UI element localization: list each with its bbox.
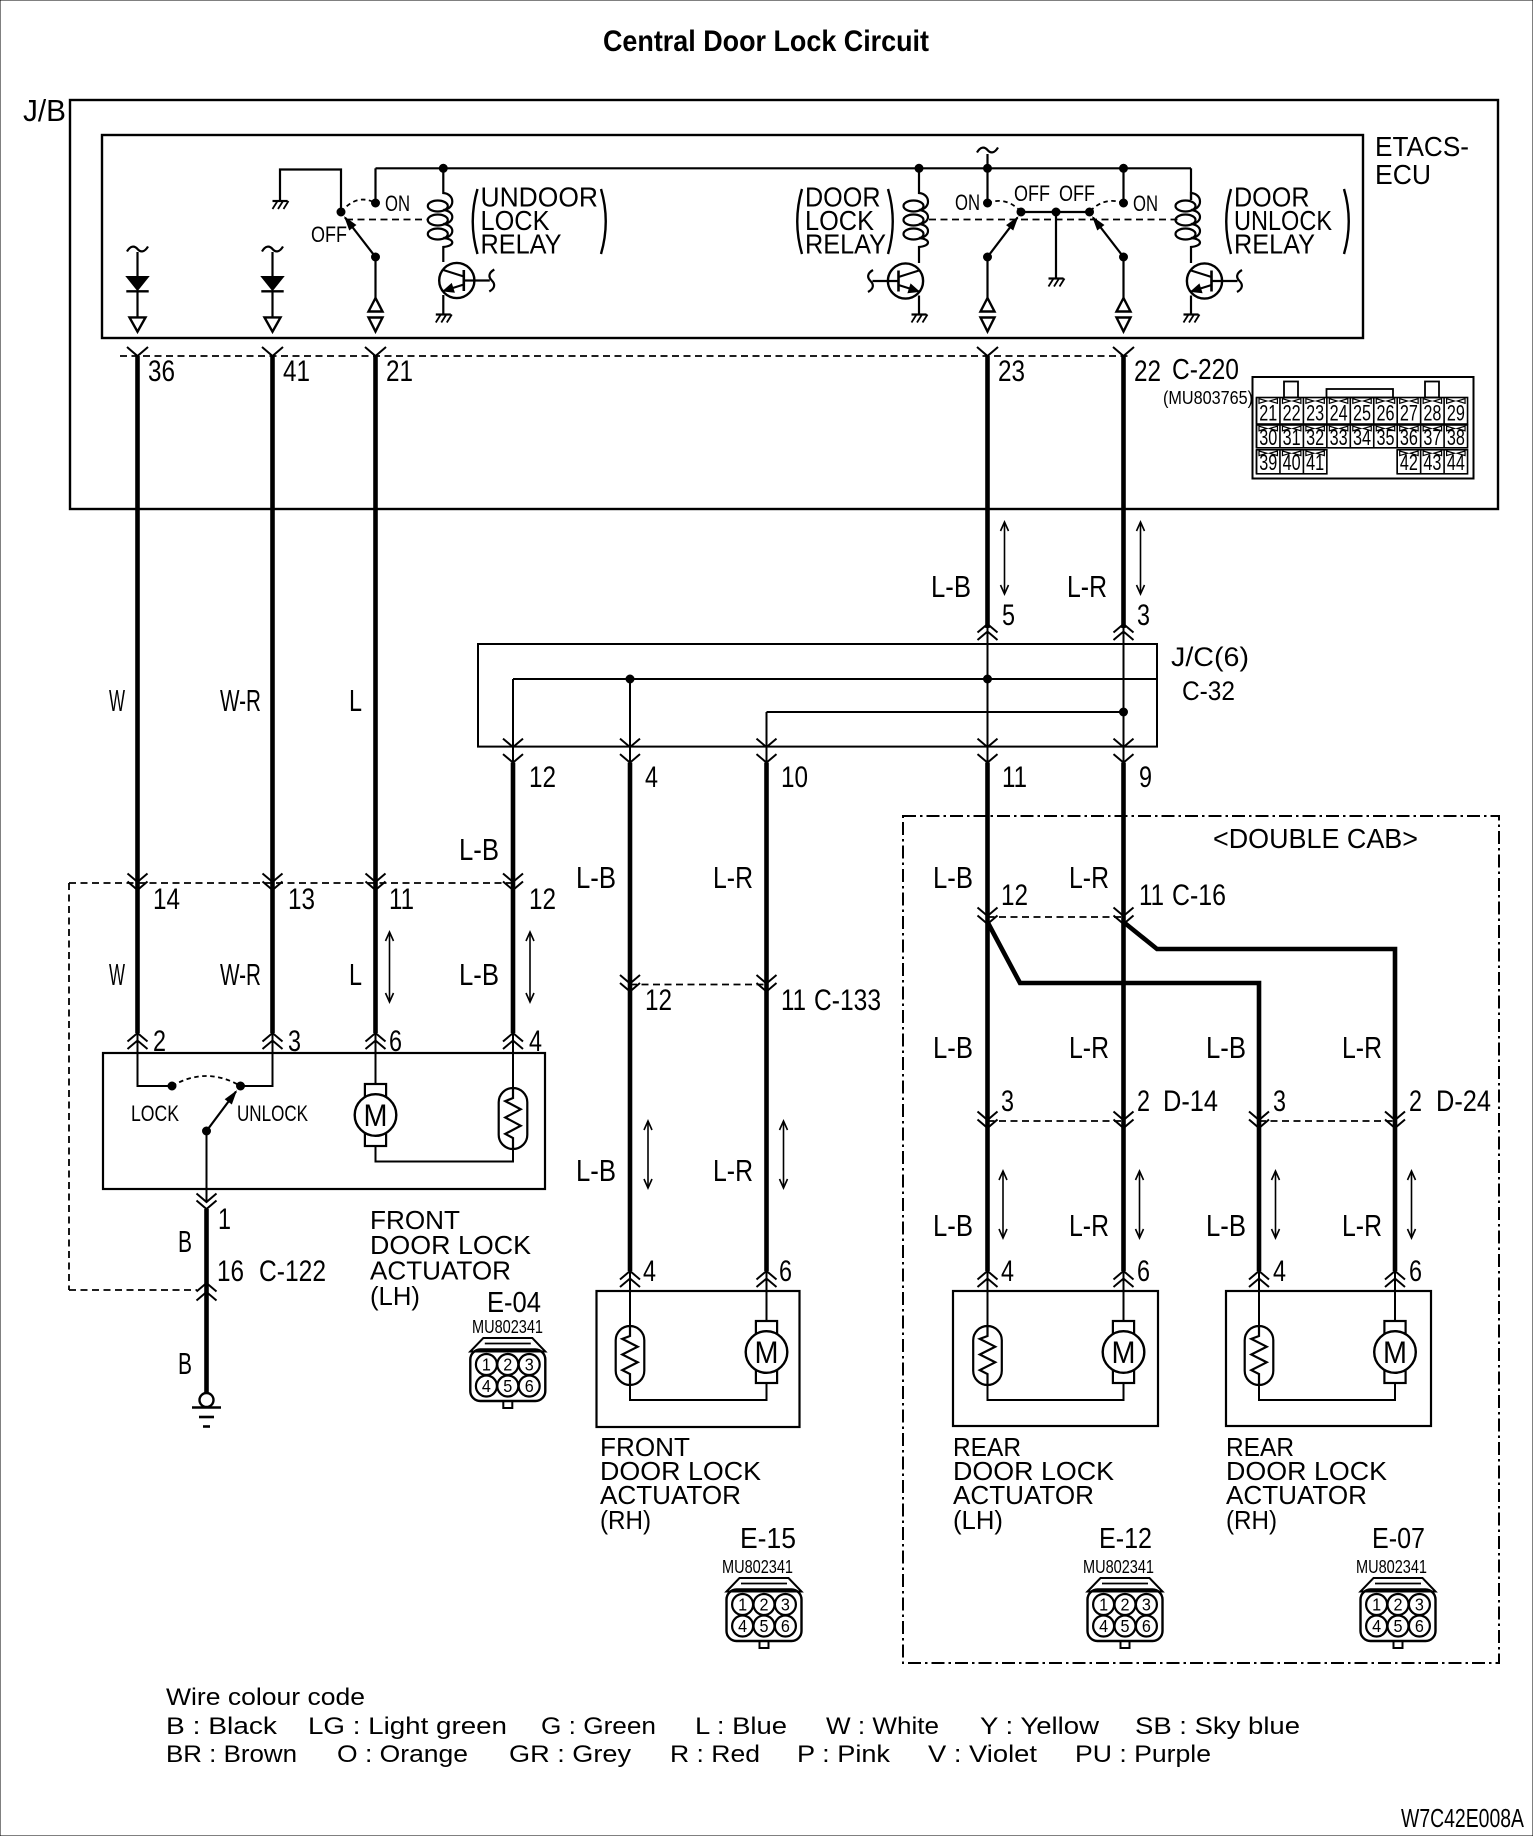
connector icon E-12	[1088, 1578, 1163, 1648]
svg-text:2: 2	[1121, 1595, 1130, 1615]
svg-text:L-R: L-R	[1069, 1208, 1109, 1243]
svg-text:M: M	[1112, 1334, 1136, 1370]
connector icon E-15	[727, 1578, 802, 1648]
svg-text:G : Green: G : Green	[541, 1713, 656, 1740]
label L-B at C-16	[933, 860, 973, 895]
svg-text:39: 39	[1259, 450, 1277, 475]
svg-text:L-B: L-B	[576, 860, 616, 895]
svg-text:Wire colour code: Wire colour code	[166, 1684, 365, 1711]
label FRONT DOOR LOCK ACTUATOR (RH)	[600, 1432, 762, 1535]
svg-text:C-133: C-133	[814, 984, 881, 1017]
label MU802341 (E-12)	[1083, 1556, 1154, 1577]
svg-text:27: 27	[1400, 401, 1418, 426]
link resistor-motor front RH	[630, 1383, 767, 1400]
svg-text:M: M	[755, 1334, 779, 1370]
transistor Q3 (door unlock relay driver)	[1187, 263, 1242, 314]
svg-text:2: 2	[1409, 1085, 1422, 1118]
svg-text:LG : Light green: LG : Light green	[308, 1713, 507, 1740]
label L-B (to front RH)	[576, 860, 616, 895]
connector D-24 dashed line	[1259, 1120, 1395, 1122]
svg-text:12: 12	[529, 761, 556, 794]
svg-text:30: 30	[1259, 425, 1277, 450]
svg-text:E-04: E-04	[487, 1287, 541, 1319]
svg-text:L-B: L-B	[931, 569, 971, 604]
label B (lower)	[178, 1346, 192, 1381]
svg-text:11: 11	[781, 984, 806, 1017]
key switch arm	[203, 1092, 237, 1190]
connector icon E-04	[470, 1338, 545, 1408]
svg-text:2: 2	[503, 1355, 512, 1375]
svg-text:9: 9	[1139, 761, 1152, 794]
label REAR DOOR LOCK ACTUATOR (LH)	[953, 1432, 1115, 1535]
joint connector J/C(6) C-32 box	[478, 642, 1249, 747]
label MU802341 (E-07)	[1356, 1556, 1427, 1577]
svg-text:L-B: L-B	[459, 957, 499, 992]
label E-15	[740, 1523, 796, 1555]
svg-text:L-B: L-B	[459, 832, 499, 867]
svg-text:4: 4	[645, 761, 658, 794]
svg-text:1: 1	[482, 1355, 491, 1375]
wire L-B (J/C pin11 into double cab)	[985, 763, 990, 1271]
svg-text:6: 6	[779, 1255, 792, 1288]
svg-text:3: 3	[1001, 1085, 1014, 1118]
svg-text:21: 21	[1259, 401, 1277, 426]
wire ground to switch SW1 pivot	[280, 170, 341, 213]
svg-text:3: 3	[525, 1355, 534, 1375]
wire colour code legend	[166, 1684, 1300, 1768]
svg-text:(LH): (LH)	[953, 1505, 1003, 1535]
supply rail inside ETACS	[376, 167, 1192, 169]
actuator RH entry pin 6	[757, 1255, 793, 1291]
label UNLOCK	[237, 1101, 308, 1126]
resistor rear LH	[973, 1291, 1002, 1385]
C-133 pin 12	[620, 975, 672, 1017]
svg-text:12: 12	[645, 984, 672, 1017]
label MU802341 (E-04)	[472, 1316, 543, 1337]
svg-text:PU : Purple: PU : Purple	[1075, 1741, 1211, 1768]
pin 22 of C-220	[1113, 347, 1161, 388]
svg-text:3: 3	[1137, 599, 1150, 632]
svg-text:OFF: OFF	[1014, 181, 1050, 206]
svg-text:23: 23	[998, 355, 1025, 388]
svg-text:C-220: C-220	[1172, 354, 1239, 386]
svg-text:6: 6	[1409, 1255, 1422, 1288]
label E-12	[1099, 1523, 1152, 1555]
svg-text:1: 1	[1099, 1595, 1108, 1615]
J/C bus2 junction dot	[1120, 708, 1128, 716]
relay coil L1 (undoor lock relay)	[428, 168, 453, 262]
J/C entry pin 5	[978, 624, 998, 644]
svg-text:26: 26	[1376, 401, 1394, 426]
pin 21 of C-220	[365, 347, 413, 388]
relay coil L2 (door lock relay)	[904, 168, 929, 263]
ground Q1 emitter	[436, 315, 452, 323]
svg-text:2: 2	[1394, 1595, 1403, 1615]
svg-text:RELAY: RELAY	[1234, 229, 1315, 260]
label (DOOR LOCK RELAY)	[797, 182, 893, 260]
link resistor-motor rear RH	[1259, 1383, 1395, 1400]
label MU802341 (E-15)	[722, 1556, 793, 1577]
svg-text:E-15: E-15	[740, 1523, 796, 1555]
svg-text:2: 2	[153, 1025, 166, 1058]
label L-R / arrow / pin 3 at J/C	[1067, 522, 1150, 632]
svg-text:W-R: W-R	[220, 957, 261, 992]
wire L (pin21 to pin6)	[373, 356, 378, 1033]
J/C exit pin 11	[978, 739, 1028, 794]
svg-text:L-R: L-R	[1069, 1030, 1109, 1065]
svg-text:4: 4	[738, 1616, 747, 1636]
svg-text:C-122: C-122	[259, 1255, 326, 1288]
dashed actuation link SW1-L1	[346, 219, 428, 221]
svg-text:28: 28	[1423, 401, 1441, 426]
rear RH entry pin 4	[1249, 1255, 1286, 1291]
label W-R (lower)	[220, 957, 261, 992]
label LOCK	[131, 1101, 179, 1126]
link resistor-motor rear LH	[988, 1383, 1124, 1400]
svg-text:(LH): (LH)	[370, 1281, 420, 1311]
junction dot rail/sw2	[984, 164, 992, 172]
wire L-R (J/C pin10 to front RH pin6)	[764, 763, 769, 1271]
wire W-R (pin41 to pin3)	[270, 356, 275, 1033]
label L	[349, 683, 362, 718]
svg-text:L : Blue: L : Blue	[695, 1713, 787, 1740]
svg-text:W7C42E008A: W7C42E008A	[1401, 1803, 1524, 1833]
label C-220	[1172, 354, 1239, 386]
svg-text:33: 33	[1330, 425, 1348, 450]
wire L-B (pin23 to J/C)	[985, 356, 990, 628]
svg-text:11: 11	[1139, 879, 1164, 912]
label B	[178, 1224, 192, 1259]
switch SW3 (door unlock relay contact)	[1086, 168, 1128, 298]
transistor Q2 (door lock relay driver, mirrored)	[868, 263, 923, 314]
dashed actuation link L2-SW2-SW3-L3	[929, 219, 1180, 221]
J/C entry pin 3	[1114, 624, 1134, 644]
label E-07	[1372, 1523, 1425, 1555]
svg-text:B : Black: B : Black	[166, 1713, 278, 1740]
resistor (lock position sw) front LH	[499, 1053, 528, 1149]
label OFF OFF (SW2/SW3)	[1014, 181, 1095, 206]
svg-text:J/C(6): J/C(6)	[1171, 642, 1249, 672]
resistor rear RH	[1245, 1291, 1274, 1385]
connector C-220 dashed pin row	[120, 355, 1130, 357]
label W	[109, 683, 125, 718]
label L-R (to front RH)	[713, 860, 753, 895]
wire L-R branch to rear RH (jog)	[1124, 922, 1396, 1271]
transistor Q1 (undoor lock relay driver)	[439, 263, 494, 314]
wire L-B (J/C pin4 to front RH pin4)	[628, 763, 633, 1271]
svg-text:3: 3	[1273, 1085, 1286, 1118]
label L-B lower / arrow (front RH)	[576, 1121, 652, 1188]
svg-text:(RH): (RH)	[1226, 1505, 1277, 1535]
connector C-16 dashed line	[988, 916, 1124, 918]
svg-text:L-B: L-B	[933, 1208, 973, 1243]
svg-text:O : Orange: O : Orange	[337, 1741, 468, 1768]
svg-text:E-07: E-07	[1372, 1523, 1425, 1555]
ground Q2 emitter	[912, 315, 928, 323]
svg-text:43: 43	[1423, 450, 1441, 475]
drawing number W7C42E008A	[1401, 1803, 1524, 1833]
svg-text:6: 6	[389, 1025, 402, 1058]
wire B (pin1 to ground)	[204, 1209, 209, 1393]
SW3 output connector triangles	[1117, 298, 1131, 332]
label (DOOR UNLOCK RELAY)	[1226, 182, 1349, 260]
svg-text:34: 34	[1353, 425, 1371, 450]
svg-text:L-B: L-B	[933, 860, 973, 895]
svg-text:3: 3	[288, 1025, 301, 1058]
svg-text:(MU803765): (MU803765)	[1163, 387, 1253, 408]
svg-text:12: 12	[1001, 879, 1028, 912]
label L-B (lower)	[459, 932, 534, 1002]
actuator LH entry pin 6	[366, 1025, 403, 1058]
labels L-B/L-R/L-B/L-R mid double cab	[933, 1030, 1382, 1065]
ground Q3 emitter	[1184, 315, 1200, 323]
label E-04	[487, 1287, 541, 1319]
svg-text:ECU: ECU	[1375, 159, 1431, 190]
svg-text:V : Violet: V : Violet	[928, 1741, 1037, 1768]
C-122 pin 16 crossing	[197, 1255, 327, 1301]
svg-text:41: 41	[283, 355, 310, 388]
svg-text:3: 3	[781, 1595, 790, 1615]
diode D1 (pin 36 branch)	[126, 247, 148, 332]
D-14 pin 3	[978, 1085, 1015, 1128]
svg-text:MU802341: MU802341	[722, 1556, 793, 1577]
svg-text:L-R: L-R	[1342, 1208, 1382, 1243]
wire W (pin36 to front LH actuator pin2)	[135, 356, 140, 1033]
C-122 pin 11	[366, 874, 415, 917]
svg-text:31: 31	[1283, 425, 1301, 450]
ground center contact	[1049, 279, 1065, 287]
rear door lock actuator LH box	[953, 1291, 1158, 1426]
C-16 pin 11	[1114, 879, 1227, 924]
rear RH entry pin 6	[1385, 1255, 1422, 1291]
svg-text:32: 32	[1306, 425, 1324, 450]
resistor front RH	[616, 1291, 645, 1385]
svg-text:38: 38	[1447, 425, 1465, 450]
svg-text:D-14: D-14	[1163, 1085, 1218, 1118]
label W-R	[220, 683, 261, 718]
rear LH entry pin 4	[978, 1255, 1015, 1291]
svg-text:D-24: D-24	[1436, 1085, 1491, 1118]
svg-text:22: 22	[1134, 355, 1161, 388]
actuator LH exit pin 1	[197, 1189, 232, 1236]
connector C-220 face view table	[1253, 377, 1474, 479]
D-24 pin 3	[1249, 1085, 1286, 1128]
svg-text:4: 4	[1099, 1616, 1108, 1636]
actuator LH entry pin 2	[128, 1025, 167, 1058]
svg-text:Y : Yellow: Y : Yellow	[980, 1713, 1100, 1740]
svg-text:4: 4	[482, 1376, 491, 1396]
svg-text:LOCK: LOCK	[131, 1101, 179, 1126]
body ground	[192, 1393, 221, 1427]
svg-text:24: 24	[1330, 401, 1348, 426]
svg-text:L-B: L-B	[1206, 1030, 1246, 1065]
svg-text:E-12: E-12	[1099, 1523, 1152, 1555]
J/C exit pin 4	[620, 739, 658, 794]
svg-text:L-R: L-R	[713, 860, 753, 895]
wire L-B branch to rear RH (jog)	[988, 922, 1260, 1271]
svg-text:RELAY: RELAY	[481, 229, 562, 260]
svg-text:4: 4	[529, 1025, 542, 1058]
SW1 output connector triangles	[369, 298, 383, 332]
svg-text:L-R: L-R	[1342, 1030, 1382, 1065]
label L-R at C-16	[1069, 860, 1109, 895]
svg-text:L-B: L-B	[1206, 1208, 1246, 1243]
svg-text:36: 36	[148, 355, 175, 388]
dashed link LOCK-UNLOCK	[172, 1076, 241, 1086]
svg-text:5: 5	[1002, 599, 1015, 632]
link motor-resistor front LH	[376, 1146, 514, 1162]
ETACS-ECU box	[102, 131, 1469, 338]
J/C exit pin 10	[757, 739, 809, 794]
svg-text:L-R: L-R	[1067, 569, 1107, 604]
connector D-14 dashed line	[988, 1120, 1124, 1122]
motor M rear RH	[1374, 1291, 1416, 1383]
svg-text:L-B: L-B	[576, 1153, 616, 1188]
SW2 output connector triangles	[981, 298, 995, 332]
svg-text:6: 6	[1142, 1616, 1151, 1636]
D-14 pin 2	[1114, 1085, 1219, 1128]
svg-text:L-B: L-B	[933, 1030, 973, 1065]
svg-text:11: 11	[1002, 761, 1027, 794]
svg-text:42: 42	[1400, 450, 1418, 475]
ground (undoor lock relay switch common)	[273, 201, 289, 209]
svg-text:4: 4	[1001, 1255, 1014, 1288]
svg-text:21: 21	[386, 355, 413, 388]
svg-text:10: 10	[781, 761, 808, 794]
contact bar between SW2/SW3 with center ground	[1021, 208, 1090, 278]
svg-text:23: 23	[1306, 401, 1324, 426]
svg-text:5: 5	[760, 1616, 769, 1636]
svg-text:RELAY: RELAY	[805, 229, 886, 260]
label (MU803765)	[1163, 387, 1253, 408]
junction dot rail/door-lock coil	[915, 164, 923, 172]
svg-text:(RH): (RH)	[600, 1505, 651, 1535]
pin 41 of C-220	[262, 347, 310, 388]
svg-text:P : Pink: P : Pink	[797, 1741, 891, 1768]
svg-text:16: 16	[217, 1255, 244, 1288]
label REAR DOOR LOCK ACTUATOR (RH)	[1226, 1432, 1388, 1535]
svg-text:W: W	[109, 957, 125, 992]
svg-text:OFF: OFF	[1059, 181, 1095, 206]
svg-text:L-R: L-R	[713, 1153, 753, 1188]
svg-text:13: 13	[288, 883, 315, 916]
switch SW2 (door lock relay contact)	[984, 168, 1026, 298]
svg-text:M: M	[1383, 1334, 1407, 1370]
svg-text:L: L	[349, 683, 362, 718]
svg-text:22: 22	[1283, 401, 1301, 426]
label DOUBLE CAB	[1213, 823, 1418, 854]
continuation squiggle above rail	[977, 148, 998, 169]
svg-text:BR : Brown: BR : Brown	[166, 1741, 297, 1768]
svg-text:Central Door Lock Circuit: Central Door Lock Circuit	[603, 25, 929, 58]
label (UNDOOR LOCK RELAY)	[473, 182, 606, 260]
svg-text:4: 4	[643, 1255, 656, 1288]
J/C internal bus 1	[513, 644, 1157, 747]
C-133 pin 11	[757, 975, 882, 1017]
svg-text:11: 11	[389, 883, 414, 916]
svg-text:14: 14	[153, 883, 180, 916]
svg-text:W: W	[109, 683, 125, 718]
svg-text:29: 29	[1447, 401, 1465, 426]
svg-text:6: 6	[1415, 1616, 1424, 1636]
svg-text:W : White: W : White	[826, 1713, 939, 1740]
svg-text:5: 5	[1121, 1616, 1130, 1636]
svg-text:25: 25	[1353, 401, 1371, 426]
C-16 pin 12	[978, 879, 1029, 924]
C-122 pin 14	[128, 874, 181, 917]
connector C-122 dashed outline	[69, 883, 513, 1290]
svg-text:1: 1	[738, 1595, 747, 1615]
actuator LH entry pin 3	[263, 1025, 302, 1058]
svg-text:2: 2	[1137, 1085, 1150, 1118]
UNLOCK contact dot	[237, 1082, 245, 1090]
label L-B above C-122	[459, 832, 499, 867]
label FRONT DOOR LOCK ACTUATOR (LH)	[370, 1205, 532, 1311]
svg-text:44: 44	[1447, 450, 1465, 475]
wire L-R (pin22 to J/C)	[1121, 356, 1126, 628]
wire L-R (J/C pin9 into double cab)	[1121, 763, 1126, 1271]
svg-text:MU802341: MU802341	[1083, 1556, 1154, 1577]
connector icon E-07	[1361, 1578, 1436, 1648]
key switch wiring inside LH actuator	[138, 1053, 273, 1086]
label L-B / arrow / pin 5 at J/C	[931, 522, 1015, 632]
svg-text:4: 4	[1372, 1616, 1381, 1636]
svg-text:35: 35	[1376, 425, 1394, 450]
svg-text:GR : Grey: GR : Grey	[509, 1741, 631, 1768]
diode D2 (pin 41 branch)	[261, 247, 283, 332]
motor M rear LH	[1103, 1291, 1145, 1383]
title	[603, 25, 929, 58]
LOCK contact dot	[168, 1082, 176, 1090]
label L-R lower / arrow (front RH)	[713, 1121, 788, 1188]
svg-text:M: M	[364, 1097, 388, 1133]
C-122 pin 12	[503, 874, 556, 917]
label L (lower)	[349, 932, 394, 1002]
junction dot rail/sw3	[1120, 164, 1128, 172]
D-24 pin 2	[1385, 1085, 1491, 1128]
actuator RH entry pin 4	[620, 1255, 656, 1291]
junction dot rail/undoor coil	[439, 164, 447, 172]
svg-text:R : Red: R : Red	[670, 1741, 760, 1768]
pin 23 of C-220	[977, 347, 1025, 388]
svg-text:J/B: J/B	[23, 93, 66, 128]
svg-text:OFF: OFF	[311, 222, 347, 247]
svg-text:3: 3	[1415, 1595, 1424, 1615]
label ON (SW1)	[385, 191, 410, 216]
svg-text:B: B	[178, 1346, 192, 1381]
svg-text:MU802341: MU802341	[472, 1316, 543, 1337]
svg-text:UNLOCK: UNLOCK	[237, 1101, 308, 1126]
switch SW1 (undoor lock relay contact)	[337, 168, 380, 298]
label ON (SW2)	[955, 190, 980, 215]
svg-text:C-32: C-32	[1182, 676, 1235, 706]
svg-text:L-R: L-R	[1069, 860, 1109, 895]
actuator LH entry pin 4	[503, 1025, 542, 1058]
svg-text:MU802341: MU802341	[1356, 1556, 1427, 1577]
svg-text:6: 6	[1137, 1255, 1150, 1288]
svg-text:6: 6	[525, 1376, 534, 1396]
front door lock actuator RH box	[597, 1291, 800, 1427]
svg-text:5: 5	[1394, 1616, 1403, 1636]
pin 36 of C-220	[127, 347, 175, 388]
svg-text:4: 4	[1273, 1255, 1286, 1288]
svg-text:L: L	[349, 957, 362, 992]
svg-text:6: 6	[781, 1616, 790, 1636]
svg-text:37: 37	[1423, 425, 1441, 450]
rear LH entry pin 6	[1114, 1255, 1151, 1291]
connector C-133 dashed line	[630, 984, 767, 986]
front door lock actuator LH box	[103, 1053, 545, 1189]
